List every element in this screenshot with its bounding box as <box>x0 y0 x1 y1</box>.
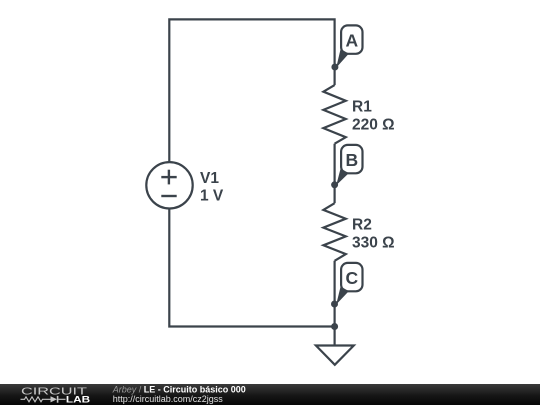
junction dot node C <box>331 301 338 308</box>
wire middle right between R1 and R2 <box>334 144 336 204</box>
footer title line <box>112 384 246 404</box>
label node letter C <box>345 268 358 288</box>
label R2 value <box>352 217 395 252</box>
label node letter B <box>345 150 358 170</box>
junction dot node B <box>331 181 338 188</box>
wire bottom <box>169 208 334 326</box>
svg-text:330 Ω: 330 Ω <box>352 234 395 251</box>
resistor R2 <box>323 203 345 261</box>
resistor R1 <box>323 85 345 144</box>
footer bar <box>0 384 540 405</box>
logo LAB text <box>66 394 90 404</box>
label V1 value <box>200 170 224 205</box>
node C bubble <box>336 263 362 305</box>
label R1 value <box>352 99 395 134</box>
svg-text:220 Ω: 220 Ω <box>352 116 395 133</box>
svg-text:B: B <box>345 150 358 170</box>
svg-text:1 V: 1 V <box>200 188 224 205</box>
node B bubble <box>336 145 362 185</box>
svg-text:Arbey / LE - Circuito básico 0: Arbey / LE - Circuito básico 000 <box>112 384 246 394</box>
svg-text:R2: R2 <box>352 217 372 234</box>
svg-text:V1: V1 <box>200 170 219 187</box>
voltage source V1 <box>146 162 192 208</box>
wire top: left corner to right corner <box>169 19 334 162</box>
node A bubble <box>336 25 362 67</box>
svg-text:A: A <box>345 31 358 51</box>
svg-text:http://circuitlab.com/cz2jgss: http://circuitlab.com/cz2jgss <box>113 394 224 404</box>
junction dot node A <box>331 64 338 71</box>
wire lower right between R2 and ground <box>334 261 336 346</box>
svg-text:C: C <box>345 268 358 288</box>
label node letter A <box>345 31 358 51</box>
svg-text:LAB: LAB <box>66 394 90 404</box>
junction dot ground tee <box>331 323 338 330</box>
svg-text:R1: R1 <box>352 99 372 116</box>
logo resistor squiggle and diode <box>21 396 66 403</box>
ground <box>316 346 354 365</box>
logo CIRCUIT text <box>21 387 88 398</box>
